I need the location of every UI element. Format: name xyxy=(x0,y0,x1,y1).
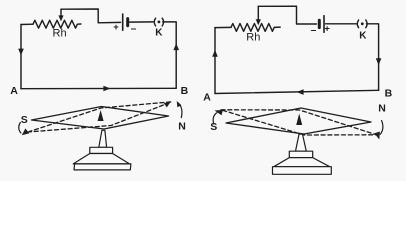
svg-text:B: B xyxy=(181,85,189,97)
current arrow (up) on right wire xyxy=(173,43,179,50)
svg-text:K: K xyxy=(155,27,163,38)
svg-text:S: S xyxy=(21,114,28,126)
svg-text:A: A xyxy=(203,91,211,103)
svg-text:N: N xyxy=(178,120,186,132)
curved rotation arrow near S xyxy=(213,113,217,124)
wire: left vertical side (top-left corner down to A) xyxy=(214,28,216,94)
wire: wiper bridge to battery branch xyxy=(61,9,121,23)
svg-text:K: K xyxy=(359,30,367,41)
battery cell: negative plate (short thick) xyxy=(126,19,129,26)
wire: battery to key xyxy=(326,23,357,25)
battery cell: negative plate (short thick) xyxy=(318,20,321,27)
arrowhead at N end of deflected needle xyxy=(374,132,380,140)
current arrow (up) on left wire xyxy=(212,50,218,57)
deflected needle (dashed diamond) xyxy=(221,110,377,135)
stand: base slab xyxy=(273,167,332,175)
battery cell: positive plate (long) xyxy=(122,14,124,30)
svg-text:Rh: Rh xyxy=(53,28,67,40)
stand: skirt xyxy=(274,158,330,167)
current arrow (right) on bottom wire xyxy=(103,86,110,92)
curved rotation arrow near S xyxy=(19,123,21,134)
battery cell: positive plate (long) xyxy=(323,16,325,33)
arrowhead at S end of deflected needle xyxy=(215,110,224,115)
svg-text:A: A xyxy=(10,85,18,97)
arrowhead at S end of deflected needle xyxy=(22,128,29,135)
curved rotation arrow near N xyxy=(380,121,383,135)
compass needle (solid diamond, rest position) xyxy=(226,108,371,134)
pivot marker (filled triangle) xyxy=(296,114,302,126)
wire: wiper bridge to battery branch xyxy=(258,6,316,24)
stand: stem xyxy=(99,130,107,147)
wire: left vertical side (top-left corner down to A) xyxy=(20,25,22,89)
svg-text:–: – xyxy=(311,25,317,36)
stand: collar xyxy=(289,151,312,157)
key K (plug key: two arcs and dot) xyxy=(154,18,155,26)
stand: stem xyxy=(296,134,307,151)
wire: top-left horizontal to resistor xyxy=(215,26,231,28)
wire: battery to key xyxy=(129,21,153,23)
resistor Rh (rheostat track zigzag) xyxy=(231,24,280,32)
compass needle (solid diamond, rest position) xyxy=(32,107,169,130)
wire: bottom side A to B xyxy=(21,87,176,89)
svg-text:–: – xyxy=(131,24,137,35)
rheostat wiper arrow (points down onto track) xyxy=(60,9,62,16)
curved rotation arrow near N xyxy=(178,103,182,118)
svg-text:B: B xyxy=(385,88,393,100)
wire: key to top-right corner and right vertical side down to B xyxy=(367,24,379,91)
stand: skirt xyxy=(73,154,129,164)
rheostat wiper arrow (points down onto track) xyxy=(257,6,259,19)
arrowhead at N end of deflected needle xyxy=(164,101,171,107)
current arrow (down) on right wire xyxy=(376,58,382,65)
wire: bottom side A to B xyxy=(215,90,379,93)
current arrow (left) on bottom wire xyxy=(297,89,304,95)
key K (plug key: two arcs and dot) xyxy=(357,20,358,28)
wire: key to top-right corner and right vertical side down to B xyxy=(163,22,176,88)
svg-text:+: + xyxy=(324,24,330,35)
svg-text:+: + xyxy=(113,22,119,33)
stand: base slab xyxy=(74,164,131,170)
resistor Rh (rheostat track zigzag) xyxy=(33,20,81,28)
svg-text:S: S xyxy=(210,121,217,133)
svg-text:N: N xyxy=(378,103,386,115)
wire: top-left horizontal to resistor xyxy=(21,23,33,25)
deflected needle (dashed diamond) xyxy=(28,102,172,132)
pivot marker (filled triangle) xyxy=(98,110,104,121)
stand: collar xyxy=(90,147,113,153)
svg-text:Rh: Rh xyxy=(246,31,260,43)
current arrow (down) on left wire xyxy=(18,49,24,56)
